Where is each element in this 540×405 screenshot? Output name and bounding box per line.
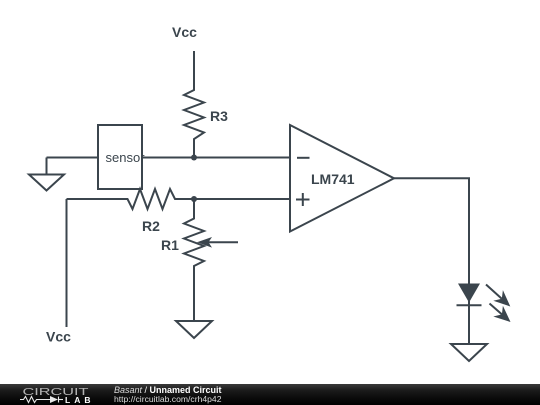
svg-text:R3: R3 (210, 108, 228, 124)
svg-text:Vcc: Vcc (172, 24, 197, 40)
svg-text:Vcc: Vcc (46, 328, 71, 344)
svg-text:sensor: sensor (106, 150, 146, 165)
svg-text:R1: R1 (161, 237, 179, 253)
svg-text:LM741: LM741 (311, 171, 355, 187)
svg-text:LAB: LAB (65, 395, 94, 405)
svg-text:R2: R2 (142, 218, 160, 234)
